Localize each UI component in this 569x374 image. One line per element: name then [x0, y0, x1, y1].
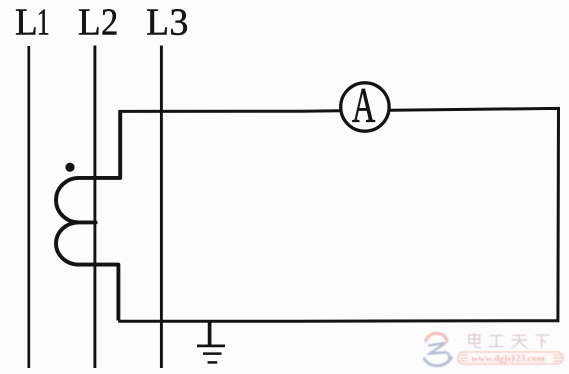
- svg-text:1: 1: [37, 2, 50, 44]
- svg-text:www.dgjs123.com: www.dgjs123.com: [471, 353, 545, 364]
- svg-text:2: 2: [101, 1, 118, 43]
- svg-text:A: A: [352, 79, 376, 134]
- svg-text:L: L: [146, 1, 169, 43]
- svg-text:L: L: [78, 1, 101, 43]
- svg-text:L: L: [15, 1, 38, 43]
- svg-text:3: 3: [169, 1, 188, 43]
